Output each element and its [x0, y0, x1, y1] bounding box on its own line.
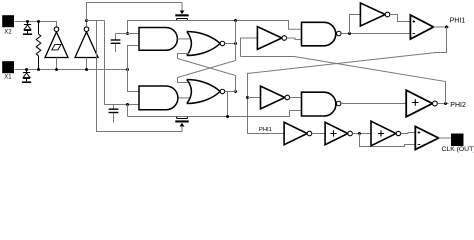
bubble U6 output — [285, 95, 290, 100]
wire U2 output stem to oscillator node — [86, 21, 88, 27]
op-amp U8 chain inverter — [284, 122, 307, 144]
op-amp U9 chain buffer with plus — [325, 122, 348, 144]
transistor Q1 gate arrow — [180, 11, 185, 15]
wire U5 output to PHI1 node — [434, 26, 450, 28]
transistor Q2 gate bar — [175, 120, 188, 122]
node NOR1 output tee — [234, 42, 237, 45]
wire C1 node to AND1 upper input — [116, 33, 140, 35]
op-amp U7 PHI2 output driver — [406, 90, 432, 117]
svg-text:PHI1: PHI1 — [450, 18, 466, 25]
wire tee to U6 input — [248, 97, 261, 99]
node NAND1 output tee — [348, 32, 351, 35]
pad X1 — [2, 61, 14, 73]
node capacitor C2 junction — [126, 103, 129, 106]
transistor Q1 gate bar — [175, 14, 188, 16]
wire NOR1 output to tee — [225, 43, 236, 45]
wire AND2 output to NOR2 lower input — [178, 97, 191, 99]
op-amp U2 oscillator inverter — [75, 32, 98, 58]
wire U7 output to PHI2 node — [437, 103, 448, 105]
op-amp U10 chain buffer with plus — [371, 121, 396, 146]
node oscillator output — [85, 19, 88, 22]
plus mark U5 upper input — [413, 20, 416, 23]
node diode D1 tap on X2 wire — [26, 20, 29, 23]
wire X1 tee down to AND2 upper input — [128, 70, 140, 92]
wire AND1 output to NOR1 upper input — [177, 38, 191, 40]
pad X2 — [2, 15, 14, 27]
node U2 input on X1 rail — [85, 68, 88, 71]
wire NOR2 output to tee — [225, 91, 236, 93]
node U1 input on X1 rail — [55, 68, 58, 71]
wire U1 input stub to X1 rail — [56, 58, 58, 70]
svg-text:X1: X1 — [4, 74, 12, 80]
op-amp U4 delay inverter — [360, 3, 385, 26]
node Q1 rail to NOR1 output tee — [234, 19, 237, 22]
op-amp U1 schmitt oscillator inverter — [45, 32, 68, 58]
transistor Q2 gate arrow — [180, 123, 185, 127]
node PHI2 — [444, 102, 447, 105]
capacitor C1 — [111, 34, 121, 53]
pad CLK output — [451, 134, 464, 147]
node PHI1 — [445, 26, 448, 29]
gate NAND1 — [302, 22, 336, 46]
bubble NAND1 output — [337, 31, 342, 36]
wire NAND1 tee up to U4 input — [350, 15, 361, 34]
wire top rail oscillator node to transistor Q1 gate — [87, 3, 183, 21]
minus mark U5 lower input — [413, 33, 416, 35]
wire NAND1 output to U5 lower input — [341, 33, 410, 35]
svg-text:PHI2: PHI2 — [450, 102, 466, 109]
diode D1 ESD protection at X2 to substrate — [23, 22, 32, 35]
op-amp U11 CLK output driver — [415, 127, 438, 150]
wire PHI2 feedback to U3 input — [241, 57, 446, 104]
wire PHI2 feedback to U3 input — [241, 38, 258, 57]
wire U10 output to U11 upper input — [401, 133, 416, 134]
bubble U8 output — [307, 131, 312, 136]
wire oscillator node down to AND2 lower input — [105, 21, 140, 105]
transistor Q2 channel — [177, 117, 188, 119]
bubble U1 output — [54, 27, 59, 32]
wire NOR2 output down to Q2 rail — [227, 92, 229, 117]
bubble NOR2 output — [220, 89, 225, 94]
bubble U4 output — [385, 12, 390, 17]
node clock chain tee — [358, 132, 361, 135]
wire cross-couple NOR1 output to NOR2 upper input — [178, 44, 236, 83]
wire X2 pad to U1 output bubble — [15, 22, 57, 27]
minus mark U11 lower input — [418, 144, 421, 146]
wire Q1 source-drain rail to NAND1 upper input — [128, 21, 302, 34]
gate AND1 — [139, 28, 177, 51]
gate NOR1 — [187, 32, 220, 56]
bubble U9 output — [348, 131, 353, 136]
svg-text:X2: X2 — [4, 29, 12, 35]
node X1 rail tee — [126, 68, 129, 71]
gate AND2 — [139, 86, 178, 110]
wire oscillator node down to transistor Q2 gate — [97, 21, 183, 132]
wire U2 input stub to X1 rail — [86, 58, 88, 70]
wire oscillator node branch — [87, 20, 105, 22]
op-amp U3 inverter top row — [257, 27, 282, 50]
wire U11 output to CLK pad — [439, 137, 451, 139]
wire U4 output to U5 upper input — [390, 15, 411, 22]
op-amp U5 PHI1 output driver — [410, 15, 433, 39]
wire X1 rail — [15, 69, 128, 71]
bubble U7 output — [433, 101, 438, 106]
wire PHI1 feedback to bottom row and clock chain — [248, 27, 447, 134]
op-amp U6 inverter bottom row — [261, 86, 285, 109]
bubble NOR1 output — [220, 41, 225, 46]
node NOR2 output tee — [234, 90, 237, 93]
wire X1 tee up to AND1 lower input — [128, 46, 140, 70]
svg-text:CLK (OUT): CLK (OUT) — [442, 146, 474, 153]
svg-text:PHI1: PHI1 — [259, 127, 272, 133]
gate NAND2 — [302, 92, 336, 116]
wire NOR1 tee up to Q1 rail — [235, 21, 237, 44]
plus mark inside U9 — [330, 130, 336, 136]
node resistor R1 top — [37, 20, 40, 23]
wire Q2 source-drain rail to NAND2 lower input — [128, 111, 302, 117]
diode D2 ESD protection at X1 to substrate — [22, 70, 31, 83]
hysteresis symbol inside U1 — [52, 45, 61, 50]
capacitor C2 — [109, 105, 119, 123]
bubble NAND2 output — [336, 101, 341, 106]
node Q2 rail junction — [226, 115, 229, 118]
node capacitor C1 junction — [126, 32, 129, 35]
plus mark inside U10 — [378, 130, 384, 136]
plus mark inside U7 — [412, 99, 418, 105]
transistor Q1 channel — [177, 19, 188, 21]
bubble U2 output — [84, 27, 89, 32]
plus mark U11 upper input — [418, 131, 421, 134]
gate NOR2 — [187, 80, 220, 104]
wire U3 output to NAND1 lower input — [287, 38, 302, 40]
bubble U10 output — [396, 131, 400, 135]
wire U6 output to NAND2 upper input — [290, 97, 302, 99]
bubble U3 output — [282, 36, 287, 41]
node diode D2 tap on X1 rail — [25, 68, 28, 71]
node U6 input tee — [246, 96, 249, 99]
wire U8 output to U9 input — [312, 133, 325, 135]
wire NAND2 output to U7 input — [341, 103, 406, 105]
wire U9 output to U10 input — [352, 133, 371, 135]
resistor R1 crystal feedback — [36, 22, 41, 70]
wire C2 node down to Q2 rail — [127, 105, 129, 117]
node resistor R1 bottom — [37, 68, 40, 71]
wire chain feedback to U11 lower input — [360, 134, 416, 147]
wire cross-couple NOR2 output to NOR1 lower input — [178, 54, 236, 92]
